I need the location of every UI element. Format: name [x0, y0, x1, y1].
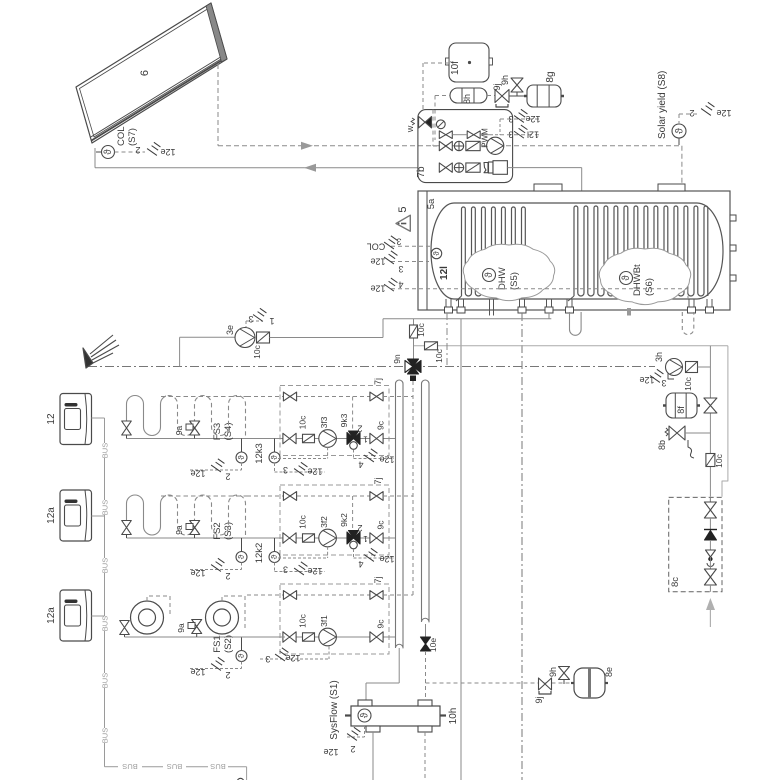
- svg-text:8g: 8g: [545, 71, 556, 82]
- svg-text:12: 12: [46, 413, 57, 425]
- svg-text:2: 2: [357, 424, 362, 434]
- svg-text:12e: 12e: [379, 455, 394, 465]
- svg-text:SysFlow (S1): SysFlow (S1): [329, 680, 340, 739]
- svg-text:2: 2: [350, 744, 355, 754]
- svg-text:Solar yield (S8): Solar yield (S8): [657, 71, 668, 139]
- svg-text:ϑ: ϑ: [621, 275, 632, 281]
- svg-text:PWM: PWM: [481, 128, 490, 148]
- svg-text:12e: 12e: [370, 257, 385, 267]
- svg-text:10f: 10f: [450, 61, 461, 75]
- svg-text:3: 3: [508, 130, 513, 140]
- svg-text:(S2): (S2): [223, 635, 234, 653]
- svg-text:4: 4: [358, 460, 363, 470]
- svg-text:9k2: 9k2: [339, 513, 349, 527]
- svg-text:FS3: FS3: [212, 423, 223, 440]
- svg-text:ϑ: ϑ: [673, 128, 685, 134]
- svg-text:12a: 12a: [46, 607, 57, 624]
- svg-text:(S3): (S3): [223, 522, 234, 540]
- svg-text:12e: 12e: [639, 375, 654, 385]
- svg-text:FS1: FS1: [212, 635, 223, 652]
- svg-text:9n: 9n: [392, 354, 402, 364]
- svg-text:7j: 7j: [373, 576, 383, 583]
- svg-text:2: 2: [225, 571, 230, 581]
- svg-text:12a: 12a: [46, 507, 57, 524]
- svg-text:ϑ: ϑ: [360, 712, 371, 718]
- svg-text:10c: 10c: [298, 613, 308, 627]
- svg-text:10c: 10c: [298, 514, 308, 528]
- svg-text:9a: 9a: [176, 623, 186, 633]
- svg-text:10c: 10c: [298, 415, 308, 429]
- svg-text:3: 3: [283, 565, 288, 575]
- svg-text:9a: 9a: [174, 426, 184, 436]
- svg-text:8h: 8h: [462, 94, 472, 104]
- svg-text:3e: 3e: [225, 325, 235, 335]
- svg-text:8b: 8b: [657, 440, 667, 450]
- svg-text:(S7): (S7): [127, 128, 138, 146]
- svg-text:10c: 10c: [714, 453, 724, 467]
- svg-text:BUS: BUS: [101, 443, 110, 458]
- svg-text:ϑ: ϑ: [237, 455, 246, 460]
- svg-text:12e: 12e: [190, 667, 205, 677]
- svg-text:12e: 12e: [716, 108, 731, 118]
- svg-text:10c: 10c: [252, 344, 262, 358]
- svg-text:10c: 10c: [683, 376, 693, 390]
- svg-text:3: 3: [265, 654, 270, 664]
- svg-text:9c: 9c: [376, 520, 386, 530]
- svg-text:BUS: BUS: [101, 728, 110, 743]
- svg-text:9h: 9h: [500, 75, 510, 85]
- svg-text:BUS: BUS: [122, 762, 137, 771]
- svg-text:12l: 12l: [439, 266, 450, 280]
- svg-text:12k3: 12k3: [254, 443, 265, 464]
- svg-text:12e: 12e: [370, 284, 385, 294]
- svg-text:ϑ: ϑ: [237, 554, 246, 559]
- svg-text:2: 2: [135, 145, 140, 155]
- svg-text:DHW: DHW: [497, 267, 508, 290]
- svg-text:W: W: [408, 125, 415, 132]
- svg-text:12e: 12e: [379, 554, 394, 564]
- svg-text:12l: 12l: [527, 130, 539, 140]
- svg-text:8c: 8c: [670, 577, 681, 587]
- svg-text:5: 5: [397, 206, 409, 212]
- svg-text:COL: COL: [116, 126, 127, 146]
- svg-text:7j: 7j: [373, 477, 383, 484]
- svg-text:5a: 5a: [426, 198, 437, 209]
- svg-text:9a: 9a: [174, 525, 184, 535]
- svg-text:12k2: 12k2: [254, 543, 265, 564]
- svg-text:3: 3: [661, 378, 666, 388]
- svg-text:1: 1: [269, 316, 274, 326]
- svg-text:BUS: BUS: [101, 500, 110, 515]
- svg-text:4: 4: [398, 280, 403, 290]
- svg-text:10e: 10e: [428, 638, 438, 652]
- svg-text:3h: 3h: [654, 352, 664, 362]
- svg-text:3: 3: [398, 264, 403, 274]
- svg-text:12e: 12e: [190, 469, 205, 479]
- svg-text:12e: 12e: [307, 566, 322, 576]
- svg-text:BUS: BUS: [101, 558, 110, 573]
- svg-text:COL: COL: [367, 242, 386, 252]
- svg-text:BUS: BUS: [210, 762, 225, 771]
- svg-text:10c: 10c: [416, 322, 426, 336]
- svg-text:12e: 12e: [160, 147, 175, 157]
- svg-text:10h: 10h: [448, 708, 459, 725]
- svg-text:BUS: BUS: [101, 616, 110, 631]
- svg-text:BUS: BUS: [101, 673, 110, 688]
- svg-text:12e: 12e: [307, 467, 322, 477]
- svg-text:ϑ: ϑ: [270, 554, 279, 559]
- svg-text:8e: 8e: [604, 667, 614, 677]
- svg-text:BUS: BUS: [167, 762, 182, 771]
- svg-text:7j: 7j: [373, 378, 383, 385]
- svg-text:2: 2: [357, 523, 362, 533]
- svg-text:(S6): (S6): [644, 278, 655, 296]
- svg-text:3: 3: [283, 465, 288, 475]
- svg-text:(S4): (S4): [223, 423, 234, 441]
- svg-text:3: 3: [508, 114, 513, 124]
- svg-text:ϑ: ϑ: [270, 455, 279, 460]
- svg-text:2: 2: [689, 108, 694, 118]
- svg-text:12e: 12e: [285, 653, 300, 663]
- svg-text:3f1: 3f1: [319, 615, 329, 627]
- svg-text:3f3: 3f3: [319, 416, 329, 428]
- svg-text:8f: 8f: [676, 406, 686, 414]
- svg-text:6: 6: [139, 70, 151, 76]
- svg-text:9k3: 9k3: [339, 413, 349, 427]
- svg-text:ϑ: ϑ: [237, 653, 246, 658]
- svg-text:9j: 9j: [534, 696, 544, 703]
- svg-text:7b: 7b: [416, 166, 427, 178]
- svg-text:9h: 9h: [548, 667, 558, 677]
- svg-text:2: 2: [225, 670, 230, 680]
- svg-text:9c: 9c: [376, 420, 386, 430]
- svg-text:ϑ: ϑ: [484, 272, 495, 278]
- svg-text:1: 1: [363, 435, 368, 444]
- svg-text:3f2: 3f2: [319, 516, 329, 528]
- svg-text:ϑ: ϑ: [432, 251, 441, 256]
- svg-text:2: 2: [225, 472, 230, 482]
- svg-text:FS2: FS2: [212, 522, 223, 539]
- svg-text:10c: 10c: [434, 348, 444, 362]
- svg-text:12e: 12e: [323, 747, 338, 757]
- svg-text:4: 4: [358, 559, 363, 569]
- svg-text:ϑ: ϑ: [103, 149, 114, 155]
- svg-text:12e: 12e: [190, 568, 205, 578]
- svg-text:3: 3: [248, 314, 253, 324]
- svg-text:DHWBt: DHWBt: [632, 264, 643, 296]
- svg-text:9c: 9c: [376, 619, 386, 629]
- svg-text:(S5): (S5): [509, 272, 520, 290]
- svg-text:12e: 12e: [525, 114, 540, 124]
- svg-text:1: 1: [363, 534, 368, 543]
- svg-text:3: 3: [396, 237, 401, 247]
